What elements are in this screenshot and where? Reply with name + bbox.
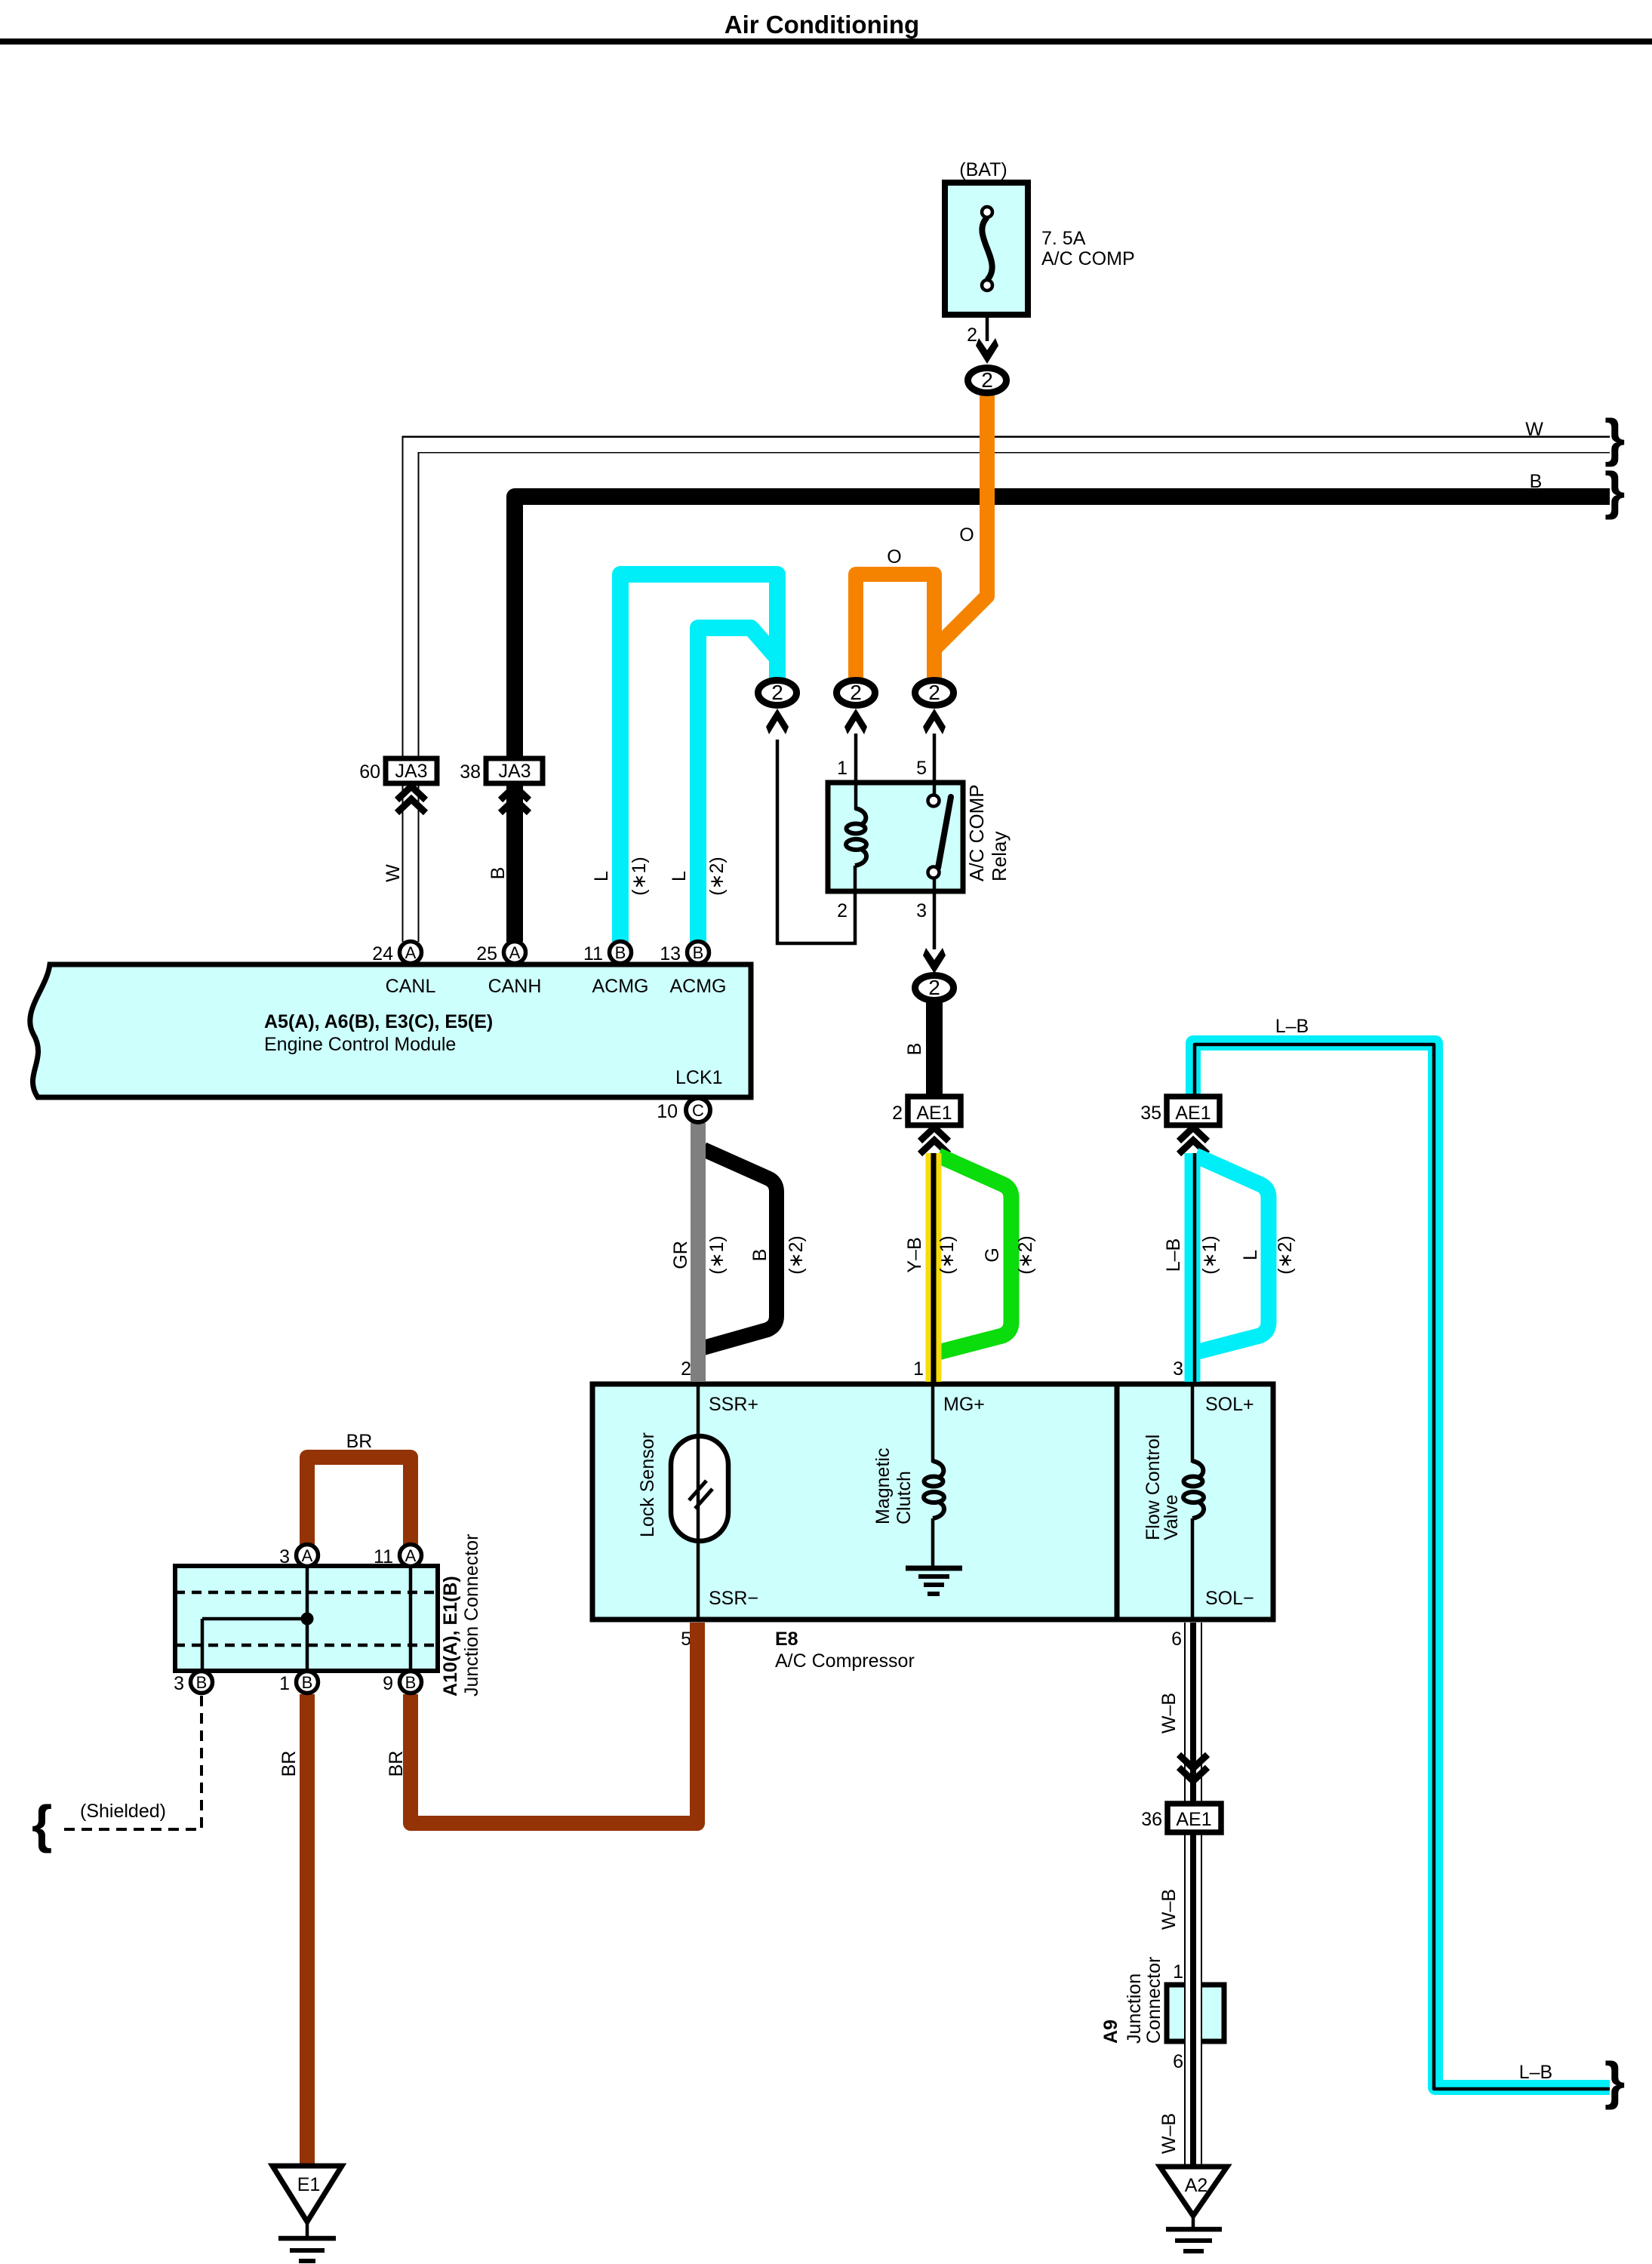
svg-text:SOL+: SOL+ bbox=[1205, 1394, 1254, 1415]
wire relay pin 3 down bbox=[933, 878, 937, 949]
magnetic clutch coil bbox=[924, 1461, 944, 1518]
relay coil bbox=[846, 808, 866, 891]
connector oval 2 (right) bbox=[915, 681, 954, 706]
svg-text:35: 35 bbox=[1140, 1103, 1161, 1124]
svg-text:A/C Compressor: A/C Compressor bbox=[775, 1650, 915, 1672]
svg-text:C: C bbox=[692, 1101, 704, 1120]
connector JA3 (38) bbox=[486, 758, 543, 783]
svg-text:Clutch: Clutch bbox=[894, 1471, 915, 1524]
svg-text:Junction Connector: Junction Connector bbox=[461, 1534, 482, 1696]
wire O orange bridge between ovals bbox=[856, 574, 934, 678]
connector 35 AE1 bbox=[1167, 1097, 1220, 1125]
svg-text:38: 38 bbox=[460, 761, 481, 783]
chevrons down into 36 AE1 bbox=[1179, 1755, 1207, 1781]
svg-text:10: 10 bbox=[657, 1101, 678, 1122]
svg-text:(∗2): (∗2) bbox=[1275, 1235, 1296, 1275]
label A9 Junction Connector bbox=[1100, 1957, 1164, 2044]
compressor box E8 bbox=[592, 1384, 1273, 1620]
svg-text:L–B: L–B bbox=[1275, 1016, 1309, 1037]
wire L-B from 35 AE1 up over and down right side to page edge bbox=[1193, 1043, 1610, 2089]
svg-text:2: 2 bbox=[928, 681, 940, 704]
wire relay pin 5 from right oval bbox=[933, 734, 937, 796]
svg-text:(∗1): (∗1) bbox=[1199, 1235, 1220, 1275]
flow control valve lead bbox=[1191, 1384, 1195, 1620]
svg-text:(∗2): (∗2) bbox=[706, 857, 728, 896]
junction pin A 11 bbox=[400, 1545, 422, 1567]
svg-text:25: 25 bbox=[476, 943, 497, 964]
svg-text:B: B bbox=[1530, 471, 1543, 492]
svg-text:24: 24 bbox=[372, 943, 393, 964]
arrow down into oval (relay pin 3) bbox=[923, 948, 946, 974]
wire B (*2) black bulge at lock sensor bbox=[703, 1149, 777, 1348]
junction connector internal wiring bbox=[202, 1566, 411, 1671]
svg-text:Valve: Valve bbox=[1161, 1494, 1182, 1540]
wire B thick relay output down to AE1 bbox=[926, 1001, 943, 1098]
svg-text:AE1: AE1 bbox=[1175, 1103, 1211, 1124]
svg-text:B: B bbox=[196, 1673, 208, 1692]
svg-text:A9: A9 bbox=[1100, 2019, 1121, 2044]
svg-text:AE1: AE1 bbox=[916, 1103, 952, 1124]
wire BR loop junction A3 to A11 bbox=[307, 1457, 411, 1545]
svg-text:L–B: L–B bbox=[1519, 2062, 1552, 2083]
wire L (*2) cyan from ECM pin 13 joining above oval bbox=[698, 628, 777, 942]
svg-text:A: A bbox=[405, 943, 417, 962]
svg-text:9: 9 bbox=[383, 1673, 393, 1694]
junction pin A 3 bbox=[297, 1545, 318, 1567]
svg-text:B: B bbox=[405, 1673, 417, 1692]
svg-text:(∗1): (∗1) bbox=[937, 1235, 958, 1275]
compressor divider bbox=[1115, 1384, 1120, 1620]
svg-text:W: W bbox=[383, 864, 404, 882]
svg-text:A5(A), A6(B), E3(C), E5(E): A5(A), A6(B), E3(C), E5(E) bbox=[264, 1011, 493, 1032]
svg-text:BR: BR bbox=[278, 1751, 300, 1777]
wire L-B (*1) down to compressor pin 3 bbox=[1192, 1153, 1195, 1382]
svg-text:A2: A2 bbox=[1185, 2175, 1208, 2196]
svg-text:Connector: Connector bbox=[1143, 1957, 1164, 2044]
svg-text:2: 2 bbox=[771, 681, 783, 704]
junction connector box A10/E1 bbox=[175, 1566, 438, 1671]
svg-text:A: A bbox=[302, 1546, 313, 1565]
connector oval 2 (below fuse) bbox=[968, 368, 1007, 393]
svg-text:2: 2 bbox=[850, 681, 862, 704]
svg-text:O: O bbox=[887, 546, 901, 568]
wire G (*2) green bulge bbox=[938, 1155, 1011, 1352]
magnetic clutch ground bbox=[906, 1518, 962, 1594]
ECM pin 25 A bbox=[504, 942, 526, 964]
svg-text:2: 2 bbox=[681, 1358, 691, 1380]
svg-text:L: L bbox=[1240, 1250, 1261, 1260]
svg-text:SSR+: SSR+ bbox=[709, 1394, 758, 1415]
chevrons below JA3 38 bbox=[500, 786, 529, 813]
ECM pin 10 C bbox=[686, 1098, 710, 1122]
wire fuse to connector bbox=[986, 315, 989, 341]
svg-text:L: L bbox=[669, 871, 690, 881]
svg-text:2: 2 bbox=[837, 900, 848, 921]
arrow up into middle oval bbox=[844, 709, 867, 734]
wire relay pin 1 from middle oval bbox=[854, 734, 858, 810]
svg-text:(∗1): (∗1) bbox=[706, 1235, 728, 1275]
svg-text:ACMG: ACMG bbox=[592, 976, 649, 997]
connector JA3 (60) bbox=[386, 758, 437, 783]
wire O orange from fuse down to oval bbox=[934, 395, 987, 678]
label 7.5A A/C COMP bbox=[1041, 228, 1135, 269]
ECM box A5/A6/E3/E5 bbox=[30, 964, 751, 1097]
svg-text:2: 2 bbox=[892, 1103, 903, 1124]
svg-text:SOL−: SOL− bbox=[1205, 1588, 1254, 1609]
svg-text:JA3: JA3 bbox=[498, 761, 531, 782]
arrow down into fuse oval bbox=[976, 338, 998, 364]
svg-text:CANL: CANL bbox=[386, 976, 436, 997]
wire relay pin 2 loop to left oval bbox=[777, 740, 855, 943]
wire BR from junction B1 to ground E1 bbox=[300, 1694, 315, 2166]
svg-text:JA3: JA3 bbox=[395, 761, 427, 782]
fuse 7.5A A/C COMP bbox=[945, 183, 1028, 315]
svg-text:1: 1 bbox=[1173, 1961, 1183, 1983]
wire W-B from SOL- down to ground A2 bbox=[1184, 1623, 1202, 2167]
svg-text:(Shielded): (Shielded) bbox=[80, 1801, 166, 1822]
title rule bbox=[0, 38, 1652, 45]
svg-text:SSR−: SSR− bbox=[709, 1588, 758, 1609]
svg-text:B: B bbox=[904, 1043, 925, 1056]
svg-text:A/C COMP: A/C COMP bbox=[1041, 248, 1135, 269]
svg-text:Magnetic: Magnetic bbox=[872, 1448, 894, 1524]
ECM pin 11 B bbox=[610, 942, 632, 964]
relay switch bbox=[928, 795, 952, 878]
svg-text:A: A bbox=[509, 943, 521, 962]
wire GR gray from ECM pin 10 to compressor pin 2 bbox=[691, 1123, 706, 1382]
svg-text:B: B bbox=[302, 1673, 313, 1692]
chevrons below JA3 60 bbox=[397, 786, 426, 813]
svg-text:O: O bbox=[959, 524, 974, 546]
svg-text:B: B bbox=[615, 943, 626, 962]
svg-text:BR: BR bbox=[386, 1751, 407, 1777]
magnetic clutch lead bbox=[931, 1384, 935, 1463]
svg-text:1: 1 bbox=[837, 758, 848, 779]
wire L (*1) cyan from ECM pin 11 to connector oval bbox=[620, 574, 777, 942]
svg-text:60: 60 bbox=[359, 761, 380, 783]
svg-text:(∗1): (∗1) bbox=[629, 857, 650, 896]
svg-text:A/C COMP: A/C COMP bbox=[965, 784, 988, 881]
svg-text:}: } bbox=[1604, 2051, 1625, 2110]
svg-text:ACMG: ACMG bbox=[670, 976, 727, 997]
wire Y-B yellow down to compressor pin 1 bbox=[926, 1153, 942, 1382]
svg-text:Engine Control Module: Engine Control Module bbox=[264, 1034, 456, 1055]
svg-text:AE1: AE1 bbox=[1176, 1809, 1211, 1830]
svg-text:2: 2 bbox=[928, 976, 940, 999]
svg-text:{: { bbox=[32, 1795, 52, 1853]
svg-text:}: } bbox=[1604, 408, 1625, 467]
junction connector box A9 bbox=[1167, 1985, 1224, 2041]
svg-text:(∗2): (∗2) bbox=[1015, 1235, 1036, 1275]
svg-text:3: 3 bbox=[174, 1673, 184, 1694]
svg-text:2: 2 bbox=[967, 325, 977, 346]
svg-text:7. 5A: 7. 5A bbox=[1041, 228, 1086, 249]
lock sensor symbol bbox=[671, 1436, 728, 1541]
connector oval 2 (left) bbox=[758, 681, 797, 706]
junction pin B 3 bbox=[191, 1672, 213, 1693]
svg-text:1: 1 bbox=[279, 1673, 290, 1694]
svg-text:W–B: W–B bbox=[1158, 2113, 1180, 2154]
svg-text:36: 36 bbox=[1141, 1809, 1162, 1830]
svg-text:13: 13 bbox=[660, 943, 681, 964]
connector 2 AE1 bbox=[908, 1097, 961, 1125]
lock sensor lead bbox=[697, 1384, 700, 1620]
connector oval 2 (middle) bbox=[837, 681, 875, 706]
svg-text:LCK1: LCK1 bbox=[675, 1067, 723, 1088]
ground E1 bbox=[272, 2166, 342, 2261]
svg-text:E1: E1 bbox=[297, 2174, 321, 2195]
wire BR from SSR- to junction B9 bbox=[411, 1623, 697, 1823]
svg-text:6: 6 bbox=[1173, 2051, 1183, 2072]
wire L (*2) cyan bulge at compressor bbox=[1195, 1155, 1269, 1352]
svg-text:BR: BR bbox=[346, 1431, 373, 1452]
svg-text:3: 3 bbox=[279, 1546, 290, 1567]
label A/C COMP Relay bbox=[965, 784, 1011, 881]
svg-text:1: 1 bbox=[913, 1358, 924, 1380]
relay box outline bbox=[828, 783, 963, 891]
svg-text:L: L bbox=[591, 871, 612, 881]
chevrons below 2 AE1 bbox=[920, 1127, 949, 1154]
svg-text:A: A bbox=[405, 1546, 417, 1565]
svg-text:(∗2): (∗2) bbox=[786, 1235, 807, 1275]
wire W (white) from ECM pin 24 up and right to page edge bbox=[411, 444, 1610, 943]
svg-text:Lock Sensor: Lock Sensor bbox=[637, 1432, 658, 1537]
flow control valve coil bbox=[1183, 1461, 1204, 1518]
svg-text:11: 11 bbox=[583, 943, 603, 964]
svg-text:L–B: L–B bbox=[1163, 1238, 1184, 1272]
svg-text:GR: GR bbox=[670, 1241, 691, 1269]
junction pin B 1 bbox=[297, 1672, 318, 1693]
chevrons below 35 AE1 bbox=[1179, 1127, 1207, 1154]
ECM pin 24 A bbox=[400, 942, 422, 964]
label Magnetic Clutch bbox=[872, 1448, 915, 1524]
connector oval 2 (relay output) bbox=[915, 976, 954, 1001]
svg-text:Air Conditioning: Air Conditioning bbox=[724, 11, 919, 38]
arrow up into left oval bbox=[766, 709, 789, 734]
svg-text:B: B bbox=[749, 1249, 771, 1262]
svg-text:B: B bbox=[693, 943, 704, 962]
svg-text:W–B: W–B bbox=[1158, 1693, 1180, 1733]
arrow up into right oval bbox=[923, 709, 946, 734]
svg-text:B: B bbox=[488, 867, 509, 880]
connector 36 AE1 bbox=[1167, 1804, 1221, 1832]
svg-text:Relay: Relay bbox=[988, 832, 1011, 881]
ground A2 bbox=[1160, 2167, 1227, 2251]
svg-text:Junction: Junction bbox=[1124, 1973, 1145, 2044]
svg-text:CANH: CANH bbox=[488, 976, 542, 997]
ECM pin 13 B bbox=[688, 942, 709, 964]
svg-text:5: 5 bbox=[681, 1629, 691, 1650]
svg-text:A10(A), E1(B): A10(A), E1(B) bbox=[440, 1576, 461, 1696]
svg-text:6: 6 bbox=[1171, 1629, 1182, 1650]
svg-text:5: 5 bbox=[916, 758, 927, 779]
svg-text:E8: E8 bbox=[775, 1629, 798, 1650]
svg-text:(BAT): (BAT) bbox=[959, 159, 1007, 180]
svg-text:3: 3 bbox=[916, 900, 927, 921]
svg-text:3: 3 bbox=[1173, 1358, 1183, 1380]
svg-text:2: 2 bbox=[981, 368, 993, 392]
svg-text:W–B: W–B bbox=[1158, 1889, 1180, 1930]
shielded dashed wire bbox=[60, 1696, 202, 1829]
svg-text:Y–B: Y–B bbox=[904, 1237, 925, 1272]
svg-text:11: 11 bbox=[374, 1546, 393, 1567]
label Flow Control Valve bbox=[1143, 1435, 1182, 1540]
junction pin B 9 bbox=[400, 1672, 422, 1693]
svg-text:W: W bbox=[1525, 419, 1543, 440]
junction connector bus dashes bbox=[175, 1592, 438, 1645]
svg-text:G: G bbox=[982, 1247, 1003, 1262]
svg-text:}: } bbox=[1604, 461, 1625, 520]
wire B (black) from ECM pin 25 up and right to page edge bbox=[515, 497, 1610, 942]
svg-text:MG+: MG+ bbox=[943, 1394, 985, 1415]
